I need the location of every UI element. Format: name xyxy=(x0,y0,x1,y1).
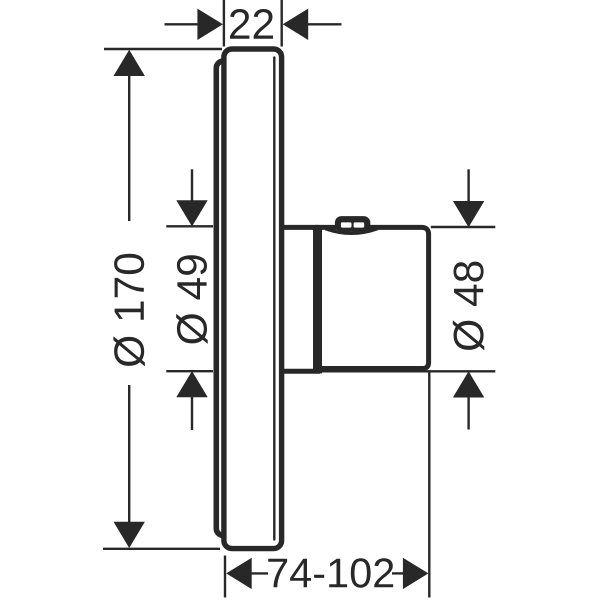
dim 48: bottom extension line xyxy=(320,370,495,372)
dim 170: bottom extension line xyxy=(103,548,220,550)
dim 22: left tail line xyxy=(165,23,201,25)
dim 74-102: left extension line xyxy=(224,556,226,598)
adjustment tab on top xyxy=(335,216,370,232)
dim 22: label xyxy=(230,9,273,39)
dim 170: top arrow xyxy=(114,50,145,76)
dim 22: right tail line xyxy=(306,23,342,25)
neck top line xyxy=(282,225,319,230)
dim 22: left extension line xyxy=(223,0,225,47)
dim 170: top extension line xyxy=(104,48,222,50)
dim 74-102: left arrow (points left) xyxy=(226,558,252,589)
dim 170: label xyxy=(113,254,144,367)
cap dome arc under tab xyxy=(326,229,378,234)
dim 74-102: left line xyxy=(250,572,269,574)
dim 48: upper stem xyxy=(467,169,469,203)
tab slot right xyxy=(354,222,365,227)
plate front face line xyxy=(273,58,275,540)
dim 49: bottom extension line xyxy=(166,370,213,372)
tab slot left xyxy=(341,222,352,227)
dim 74-102: right arrow (points right) xyxy=(403,558,429,589)
dim 49: top extension line xyxy=(166,225,213,227)
dim 74-102: right line xyxy=(392,572,405,574)
dim 48: top extension line xyxy=(431,226,496,228)
dim 74-102: label xyxy=(268,558,393,587)
dim 49: label xyxy=(176,255,208,344)
dim 170: lower dimension line xyxy=(128,385,130,524)
cartridge body outline xyxy=(315,227,428,368)
dim 22: left arrow xyxy=(197,9,223,40)
dim 48: top arrow (points down) xyxy=(453,201,484,227)
dim 48: lower stem xyxy=(467,397,469,430)
dim 49: bottom arrow (points up) xyxy=(176,371,207,397)
dim 49: lower stem xyxy=(191,396,193,430)
dim 170: bottom arrow xyxy=(114,522,145,548)
dim 22: right extension line xyxy=(281,0,283,47)
neck bottom line xyxy=(282,369,321,374)
neck flange line xyxy=(313,225,322,373)
dim 22: right arrow xyxy=(283,9,309,40)
dim 48: bottom arrow (points up) xyxy=(453,371,484,397)
dim 170: upper dimension line xyxy=(128,73,130,221)
escutcheon plate (side view, rounded rect, white fill) xyxy=(224,49,282,549)
sleeve (back collar behind escutcheon) xyxy=(216,61,260,536)
dim 74-102: right extension line xyxy=(428,371,430,598)
dim 49: upper stem xyxy=(191,169,193,203)
dim 49: top arrow (points down) xyxy=(176,200,207,226)
dim 48: label xyxy=(453,262,485,351)
